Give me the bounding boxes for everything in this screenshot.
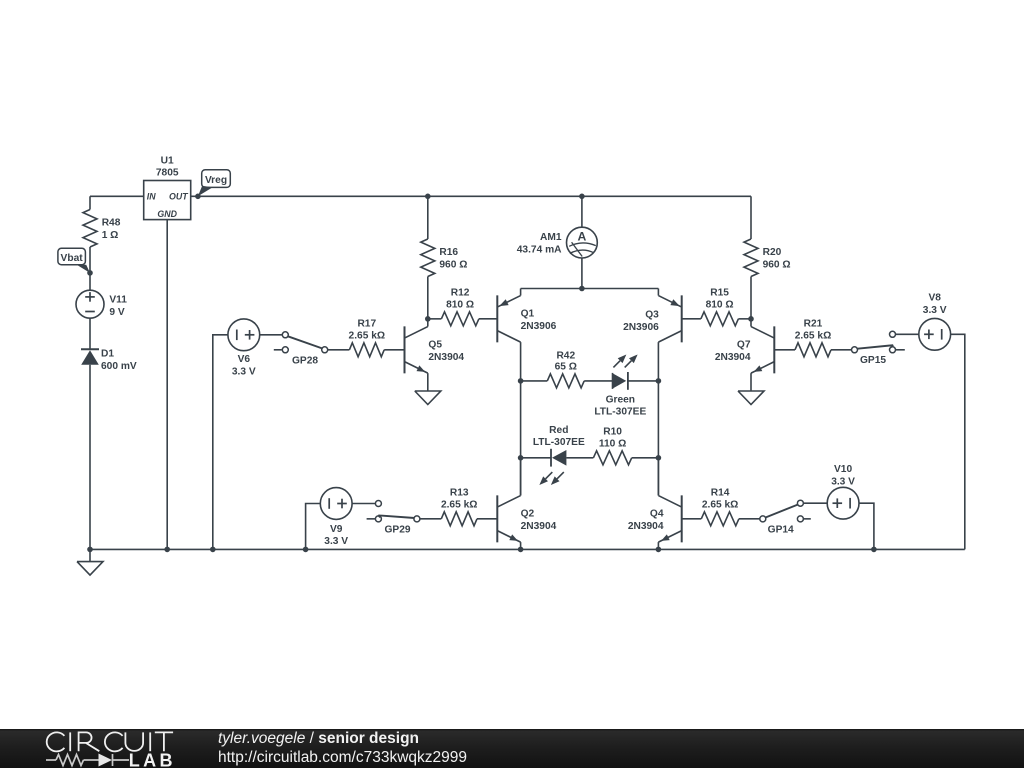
svg-text:3.3 V: 3.3 V: [831, 476, 855, 487]
switch GP14: [760, 516, 766, 522]
svg-text:3.3 V: 3.3 V: [923, 305, 947, 316]
svg-text:Q5: Q5: [428, 340, 442, 351]
wire R17 to Q5 base: [384, 349, 404, 351]
node emitter-pair junction dot: [579, 286, 585, 292]
node bottom rail dot at U1 GND: [164, 547, 170, 553]
wire U1 GND to bottom rail: [166, 220, 168, 550]
transistor Q3 2N3906: [657, 289, 659, 296]
svg-text:Q2: Q2: [521, 509, 535, 520]
svg-text:Q1: Q1: [521, 309, 535, 320]
node V10 junction dot: [871, 547, 877, 553]
voltage source V9 3.3V: [320, 488, 352, 520]
node Q2 emitter junction dot: [518, 547, 524, 553]
svg-text:Green: Green: [606, 394, 635, 405]
svg-text:960 Ω: 960 Ω: [439, 260, 467, 271]
wire green row left stub: [521, 380, 548, 382]
svg-text:2N3904: 2N3904: [628, 521, 664, 532]
node top-rail junction dot at R16: [425, 194, 431, 200]
svg-text:Vreg: Vreg: [205, 175, 227, 186]
wire Q1-Q3 emitter rail: [521, 288, 659, 290]
node green-row right junction dot: [656, 378, 662, 384]
transistor Q5 2N3904: [404, 326, 406, 373]
transistor Q2 2N3904: [496, 495, 498, 542]
svg-text:GP14: GP14: [768, 524, 794, 535]
svg-text:Vbat: Vbat: [61, 253, 84, 264]
wire R12 left stub: [428, 318, 442, 320]
svg-text:R13: R13: [450, 487, 469, 498]
wire V6 to GP28 contact: [260, 334, 283, 336]
svg-text:2.65 kΩ: 2.65 kΩ: [349, 330, 386, 341]
ground main: [77, 562, 103, 576]
svg-text:3.3 V: 3.3 V: [232, 366, 256, 377]
voltage source V10 3.3V: [827, 487, 859, 519]
node bottom rail dot at battery branch: [87, 547, 93, 553]
wire R20 to R15 junction: [750, 277, 752, 319]
svg-text:Q3: Q3: [645, 310, 659, 321]
diode D1 600mV: [81, 348, 99, 350]
wire Q2 emitter to bottom rail: [520, 542, 522, 549]
wire R14 to GP14: [739, 518, 760, 520]
wire V6 left corner to bottom rail: [213, 335, 228, 550]
ground at Q7: [738, 391, 764, 405]
wire R16 top stub: [427, 196, 429, 239]
node Q4 emitter junction dot: [656, 547, 662, 553]
svg-text:V10: V10: [834, 464, 852, 475]
wire GP28 to R17: [328, 349, 350, 351]
wire bottom rail: [90, 548, 965, 550]
svg-text:2.65 kΩ: 2.65 kΩ: [441, 499, 478, 510]
wire R12 to Q1 base: [479, 318, 497, 320]
resistor R14: [701, 512, 739, 526]
wire red LED to R10: [566, 457, 593, 459]
svg-text:R42: R42: [556, 351, 575, 362]
svg-text:D1: D1: [101, 349, 114, 360]
svg-text:R12: R12: [451, 287, 470, 298]
svg-text:R14: R14: [711, 487, 730, 498]
wire red row left stub: [521, 457, 551, 459]
logo CircuitLab: [30, 729, 220, 768]
node top-rail junction dot at AM1: [579, 194, 585, 200]
wire V10 to bottom rail: [859, 503, 874, 549]
wire Q7 base to R21: [774, 349, 795, 351]
ground at Q5: [415, 391, 441, 405]
svg-text:R20: R20: [763, 247, 782, 258]
svg-text:9 V: 9 V: [109, 307, 124, 318]
ammeter AM1 43.74mA: [567, 227, 598, 258]
node Vbat junction dot: [87, 270, 93, 276]
svg-text:65 Ω: 65 Ω: [555, 362, 577, 373]
svg-text:2N3904: 2N3904: [521, 521, 557, 532]
switch GP28: [282, 332, 288, 338]
svg-text:Q4: Q4: [650, 509, 664, 520]
wire left rail top segment: [89, 196, 91, 209]
flag Vbat: [58, 248, 86, 264]
svg-text:2.65 kΩ: 2.65 kΩ: [702, 499, 739, 510]
resistor R13: [441, 512, 477, 526]
wire green LED to right rail: [628, 380, 659, 382]
svg-text:R48: R48: [102, 217, 121, 228]
svg-text:Q7: Q7: [737, 340, 751, 351]
wire R48 to Vbat node: [89, 247, 91, 273]
svg-text:2N3904: 2N3904: [715, 352, 751, 363]
svg-text:R15: R15: [710, 287, 729, 298]
svg-text:810 Ω: 810 Ω: [706, 299, 734, 310]
svg-text:1 Ω: 1 Ω: [102, 230, 119, 241]
wire Q5 emitter to ground: [427, 373, 429, 391]
svg-text:GP29: GP29: [384, 524, 410, 535]
wire R42 to green LED: [584, 380, 612, 382]
svg-text:2.65 kΩ: 2.65 kΩ: [795, 330, 832, 341]
LED Red LTL-307EE: [550, 449, 552, 467]
svg-text:2N3904: 2N3904: [428, 352, 464, 363]
op-amp U1 7805 regulator box: [144, 181, 191, 220]
node bottom rail dot at V6 branch: [210, 547, 216, 553]
wire R13 to Q2 base: [477, 518, 497, 520]
flag Vreg: [202, 170, 231, 188]
wire Q4 emitter to bottom rail: [657, 542, 659, 549]
voltage source V6 3.3V: [228, 319, 260, 351]
voltage source V11 9V: [76, 290, 104, 318]
svg-text:AM1: AM1: [540, 232, 562, 243]
svg-text:7805: 7805: [156, 168, 179, 179]
node R15/R20/Q7 junction dot: [748, 316, 754, 322]
wire Q4 collector to red row: [657, 458, 659, 496]
svg-text:960 Ω: 960 Ω: [763, 260, 791, 271]
svg-text:GND: GND: [157, 209, 177, 219]
wire Vbat node to V11: [89, 273, 91, 290]
resistor R15: [701, 312, 739, 326]
svg-text:GP28: GP28: [292, 356, 318, 367]
svg-text:Red: Red: [549, 425, 568, 436]
wire top rail from R48 to U1 IN: [90, 195, 144, 197]
wire GP15 to V8: [896, 333, 919, 335]
wire R21 to GP15: [831, 349, 852, 351]
resistor R21: [795, 343, 831, 357]
wire main ground stub: [89, 549, 91, 561]
transistor Q7 2N3904: [773, 326, 775, 373]
wire Q2 collector to red row: [520, 458, 522, 496]
wire Q3 collector rail: [657, 342, 659, 495]
resistor R17: [349, 343, 384, 357]
svg-text:V9: V9: [330, 524, 343, 535]
svg-text:2N3906: 2N3906: [521, 321, 557, 332]
svg-text:U1: U1: [161, 155, 174, 166]
wire Q4 base to R14: [682, 518, 702, 520]
svg-text:110 Ω: 110 Ω: [599, 438, 626, 449]
wire Q7 collector to junction: [750, 319, 752, 327]
svg-text:A: A: [577, 229, 586, 243]
svg-text:OUT: OUT: [169, 192, 188, 202]
switch GP29: [375, 501, 381, 507]
wire GP29 to R13: [420, 518, 441, 520]
wire R16 to base-row junction: [427, 277, 429, 319]
svg-text:600 mV: 600 mV: [101, 361, 137, 372]
resistor R42: [547, 374, 584, 388]
svg-text:V8: V8: [928, 293, 941, 304]
svg-text:LTL-307EE: LTL-307EE: [533, 437, 585, 448]
svg-text:810 Ω: 810 Ω: [446, 299, 474, 310]
LED Green LTL-307EE: [613, 373, 627, 388]
node Vreg junction dot at U1 OUT: [195, 194, 201, 200]
wire AM1 to emitter-pair rail: [581, 258, 583, 289]
node red-row left junction dot: [518, 455, 524, 461]
wire Q3 base to R15: [682, 318, 701, 320]
wire D1 to bottom rail: [89, 365, 91, 550]
svg-text:2N3906: 2N3906: [623, 322, 659, 333]
resistor R10: [593, 451, 631, 465]
wire R20 top stub: [750, 196, 752, 239]
wire GP14 to V10: [803, 502, 827, 504]
resistor R48: [83, 210, 97, 248]
wire top rail Vreg from U1 OUT to R20 corner: [191, 195, 751, 197]
resistor R20: [744, 239, 758, 277]
svg-text:IN: IN: [147, 192, 156, 202]
svg-text:R21: R21: [804, 318, 823, 329]
wire V8 to right rail corner: [951, 334, 965, 549]
wire Q1 collector rail: [520, 342, 522, 495]
node red-row right junction dot: [656, 455, 662, 461]
svg-text:R17: R17: [357, 318, 376, 329]
svg-text:LTL-307EE: LTL-307EE: [594, 406, 646, 417]
voltage source V8 3.3V: [919, 318, 951, 350]
svg-text:R10: R10: [603, 426, 622, 437]
resistor R12: [441, 312, 479, 326]
wire V9 to GP29: [352, 503, 375, 505]
svg-text:3.3 V: 3.3 V: [324, 536, 348, 547]
transistor Q1 2N3906: [520, 289, 522, 296]
wire Q7 emitter to ground: [750, 373, 752, 391]
wire R15 to junction: [738, 318, 751, 320]
wire V11 to D1: [89, 318, 91, 349]
svg-text:V11: V11: [109, 294, 127, 305]
svg-text:43.74 mA: 43.74 mA: [517, 244, 562, 255]
svg-text:GP15: GP15: [860, 355, 886, 366]
node bottom rail dot at V9 branch: [303, 547, 309, 553]
resistor R16: [421, 239, 435, 277]
wire V9 left corner to bottom rail: [306, 504, 321, 550]
svg-text:V6: V6: [238, 354, 251, 365]
wire R10 to right rail: [632, 457, 659, 459]
node green-row left junction dot: [518, 378, 524, 384]
switch GP15: [852, 347, 858, 353]
node R12 junction dot: [425, 316, 431, 322]
wire AM1 top stub: [581, 196, 583, 227]
transistor Q4 2N3904: [681, 495, 683, 542]
svg-text:R16: R16: [439, 247, 458, 258]
svg-text:LAB: LAB: [129, 750, 176, 768]
wire Q5 collector to base-row junction: [427, 319, 429, 327]
